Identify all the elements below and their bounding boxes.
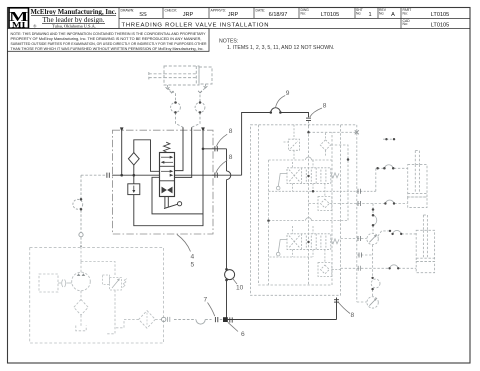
stub (plugged test line) — [383, 138, 396, 140]
leader (label 9 to hose loop) — [276, 96, 286, 108]
quick disconnect (main line, left of enclosure) — [107, 173, 109, 178]
wire (gallery hop over supply) — [306, 157, 312, 160]
valve V1 (kit 4-way 3-position lever valve) — [160, 142, 175, 196]
wire (valve B port stubs) — [270, 226, 314, 257]
node (work gallery tap) — [312, 190, 315, 193]
tank return branch arrow (top boundary, left) — [120, 127, 124, 132]
motor 1 (roller drive motor) — [367, 233, 378, 244]
svg-text:1. ITEMS 1, 2, 3, 5, 11, AND 1: 1. ITEMS 1, 2, 3, 5, 11, AND 12 NOT SHOW… — [227, 45, 334, 51]
node (supply at upper valve) — [307, 175, 309, 177]
leader (to drain disconnect) — [216, 134, 227, 146]
wire (riser to cylinder 1 piston line) — [376, 168, 408, 191]
wire (riser from right cylinder hose to valve port B) — [175, 127, 192, 177]
coupling (motor to pump) — [58, 280, 72, 288]
quick disconnect (work line B) — [358, 201, 360, 206]
svg-text:DATE:: DATE: — [256, 8, 266, 12]
hose loop (item 10 coil on return riser) — [225, 268, 235, 281]
quick disconnect (work line A) — [358, 189, 360, 194]
svg-text:9: 9 — [286, 90, 290, 97]
leader (labels 4,5 to enclosure) — [177, 235, 191, 252]
notes — [219, 39, 334, 52]
wire (branch to motor 1 with coil) — [372, 204, 374, 234]
quick disconnect (motor 1 feed) — [358, 236, 360, 241]
wire (motor 2 feed from manifold) — [357, 301, 367, 303]
svg-text:LT0105: LT0105 — [431, 23, 450, 29]
hose loop (cylinder 2 lower line) — [390, 265, 399, 268]
leader (label 10 to coil) — [232, 278, 237, 284]
spring (valve B) — [331, 239, 339, 244]
wire (valve A work port stubs) — [269, 160, 376, 191]
filter (return filter diamond) — [139, 311, 156, 329]
port (pump outlet quick coupler) — [79, 233, 83, 237]
wire (supply jumper over bank to right manifold) — [309, 125, 357, 302]
motor 2 (roller drive motor) — [367, 297, 378, 308]
cylinder (existing carriage cylinder, top) — [149, 66, 212, 85]
hose loop (right cylinder line) — [195, 101, 205, 113]
svg-text:McElroy Manufacturing, Inc.: McElroy Manufacturing, Inc. — [31, 7, 117, 16]
hose loop (cylinder 2 upper line) — [393, 230, 402, 233]
wire (filter branch through main line to orifice block) — [133, 165, 135, 184]
port (tank return coupler on enclosure) — [162, 317, 166, 321]
wire (bank left drain gallery) — [268, 160, 270, 285]
svg-text:1: 1 — [368, 12, 371, 18]
svg-text:No:: No: — [379, 12, 384, 16]
plug (capped port cross) — [355, 130, 359, 134]
wire (cylinder 1 rod-end line from check valve A) — [309, 203, 408, 205]
McElroy logo — [9, 8, 29, 30]
svg-text:LT0105: LT0105 — [321, 12, 340, 18]
wire (cylinder right port hose, dashed) — [192, 84, 206, 127]
wire (motor 1 feed from bank) — [341, 238, 367, 240]
filter (in-line filter diamond) — [128, 153, 139, 165]
wire (tank branch down to main line) — [121, 131, 123, 175]
svg-text:SS: SS — [139, 12, 147, 18]
svg-text:NOTES:: NOTES: — [219, 39, 238, 45]
port arrows (cylinder ports) — [166, 86, 208, 93]
company name text — [31, 7, 117, 30]
svg-text:6/18/97: 6/18/97 — [269, 12, 288, 18]
svg-text:No:: No: — [403, 12, 408, 16]
quick disconnect (right of junction) — [230, 317, 232, 322]
svg-text:A: A — [391, 12, 395, 18]
hose loop (left cylinder line) — [171, 101, 181, 113]
wire (bottom solid return run to valve bank riser) — [227, 298, 337, 320]
hose loop (cylinder 1 lower line) — [385, 200, 394, 203]
wire (supply top run to valve bank with hose loop item 9) — [242, 108, 309, 176]
cylinder 1 (right top, existing) — [408, 151, 427, 208]
wire (cylinder 2 rod-end line) — [341, 267, 417, 269]
check valve (bank inlet diamond) — [320, 133, 330, 157]
wire (orifice block outlet loop to drain gallery) — [134, 195, 203, 226]
wire (return riser with crossover hop and hose loop, to junction) — [227, 149, 231, 318]
quick disconnect (item 7 return fitting) — [215, 317, 217, 322]
quick disconnect (valve bank return riser) — [334, 300, 339, 302]
svg-text:NOTE: THIS DRAWING AND THE INF: NOTE: THIS DRAWING AND THE INFORMATION C… — [11, 32, 207, 36]
wire (suction down to tank) — [76, 315, 86, 331]
node (mid gallery at drain gallery) — [267, 219, 270, 222]
wire (filter branch elbow to valve port) — [134, 140, 160, 172]
svg-text:7: 7 — [204, 297, 208, 304]
svg-text:5: 5 — [191, 262, 195, 269]
title block grid — [8, 8, 471, 29]
wire (drain line to lower quick disconnect riser) — [203, 148, 227, 150]
valve bank section B (lower directional valve) — [287, 234, 331, 250]
position 1 arrows — [161, 156, 172, 158]
svg-text:No:: No: — [356, 12, 361, 16]
wire (relief valve tee) — [81, 262, 115, 334]
svg-text:SUBMITTED OUTSIDE PARTIES FOR: SUBMITTED OUTSIDE PARTIES FOR EXAMINATIO… — [11, 42, 207, 46]
leader (to main line disconnect) — [216, 160, 227, 173]
svg-text:8: 8 — [229, 154, 233, 161]
svg-text:JRP: JRP — [183, 12, 194, 18]
lever (valve A handle) — [276, 174, 287, 190]
svg-text:APPRV'D:: APPRV'D: — [211, 8, 227, 12]
quick disconnect (cylinder 2 line) — [358, 266, 360, 271]
svg-text:LT0105: LT0105 — [431, 12, 450, 18]
svg-text:DRAWN:: DRAWN: — [121, 8, 135, 12]
pump supply dashed riser (existing hose from power unit) — [80, 175, 82, 247]
svg-text:8: 8 — [229, 128, 233, 135]
node (supply at jumper) — [307, 131, 310, 134]
orifice block (small valve component) — [128, 184, 140, 195]
relief valve (power unit) — [103, 275, 128, 290]
wire (bank upper gallery) — [269, 159, 333, 161]
wire (return filter to tank port) — [155, 318, 161, 320]
hose loop (pump supply line) — [73, 198, 83, 211]
node (drain tee) — [202, 148, 205, 151]
wire (inlet check down to mid gallery) — [331, 145, 348, 221]
svg-text:JRP: JRP — [228, 12, 239, 18]
title block labels and values — [121, 8, 412, 26]
leader (label 8 to supply disconnect) — [310, 108, 322, 117]
relief valve (bank inlet section) — [284, 125, 300, 160]
check valve B (service line) — [318, 249, 341, 276]
position 2 pass-through arrows — [161, 170, 172, 172]
kit enclosure boundary (dash-dot) — [113, 130, 214, 234]
svg-text:8: 8 — [323, 103, 327, 110]
svg-text:®: ® — [33, 23, 37, 28]
svg-text:10: 10 — [236, 285, 244, 292]
leader (label 7 to return disconnect) — [208, 303, 215, 317]
wire (valve tank port loop under valve) — [152, 131, 203, 214]
disclaimer box — [8, 29, 210, 52]
filter (suction strainer diamond) — [74, 300, 88, 316]
position 3 blocked bowtie — [162, 187, 167, 194]
tank return hose (junction to power unit) — [174, 319, 222, 321]
quick disconnect (drain line at enclosure edge) — [215, 146, 217, 151]
motor M (electric motor box) — [39, 274, 58, 292]
wire (cylinder left port hose, dashed) — [168, 85, 184, 127]
wire (bank internal supply gallery) — [308, 126, 310, 285]
wire (pump outlet up to port) — [80, 262, 82, 273]
quick disconnect (valve bank supply inlet) — [306, 118, 311, 120]
wire (bank mid gallery) — [269, 220, 348, 222]
check valve A (service line) — [318, 183, 332, 210]
svg-text:4: 4 — [191, 254, 195, 261]
svg-text:THAN THOSE FOR WHICH IT WAS FU: THAN THOSE FOR WHICH IT WAS FURNISHED WI… — [11, 47, 204, 51]
wire (riser from left cylinder hose to valve port A) — [175, 127, 184, 170]
svg-text:No:: No: — [301, 12, 306, 16]
junction block (item 6 tee fitting) — [223, 317, 228, 322]
wire (motor 2 chain from motor 1) — [357, 245, 373, 297]
power unit enclosure (existing hydraulic power unit) — [30, 247, 164, 343]
lever (valve B handle) — [276, 240, 287, 256]
svg-text:CHECK:: CHECK: — [165, 8, 178, 12]
node (tank branch at main line) — [120, 174, 123, 177]
wire (main pressure line through valve) — [112, 174, 242, 176]
leader (to bank return disconnect) — [339, 303, 351, 314]
leader (label 6 to junction) — [228, 322, 238, 331]
wire (motor 1 to cylinder 2 cap line) — [378, 231, 416, 236]
svg-text:THREADING ROLLER VALVE INSTALL: THREADING ROLLER VALVE INSTALLATION — [122, 22, 269, 28]
node (supply at lower valve) — [307, 241, 309, 243]
quick disconnect (main line at enclosure exit) — [215, 173, 217, 178]
wire (return filter inlet elbow) — [115, 319, 138, 327]
spring (valve top) — [164, 142, 170, 152]
spring (valve A) — [331, 173, 339, 178]
svg-text:6: 6 — [241, 331, 245, 338]
node (filter branch at main line) — [133, 174, 136, 177]
valve bank section A (upper directional valve) — [287, 168, 331, 184]
wire (mid gallery hop over supply) — [306, 218, 312, 221]
pump P (hydraulic pump circle) — [72, 272, 91, 291]
lever (valve handle with knob) — [164, 197, 182, 209]
hose loop (motor 2 supply coil) — [371, 277, 380, 291]
svg-text:PROPERTY OF McElroy Manufactur: PROPERTY OF McElroy Manufacturing, Inc. … — [11, 37, 202, 41]
hose sag (return hose dip) — [196, 320, 205, 325]
valve bank block (existing control valve bank, dashed) — [251, 125, 341, 295]
hose loop (cylinder 1 upper line) — [384, 165, 393, 169]
cylinder 2 (right lower, existing) — [416, 215, 434, 273]
svg-text:No:: No: — [403, 22, 408, 26]
wire (main line dashed continuation to pump riser) — [81, 174, 106, 176]
wire (supply stub into bank) — [308, 121, 310, 126]
svg-text:8: 8 — [351, 312, 355, 319]
tank return arrow (top boundary, right) — [201, 127, 205, 132]
